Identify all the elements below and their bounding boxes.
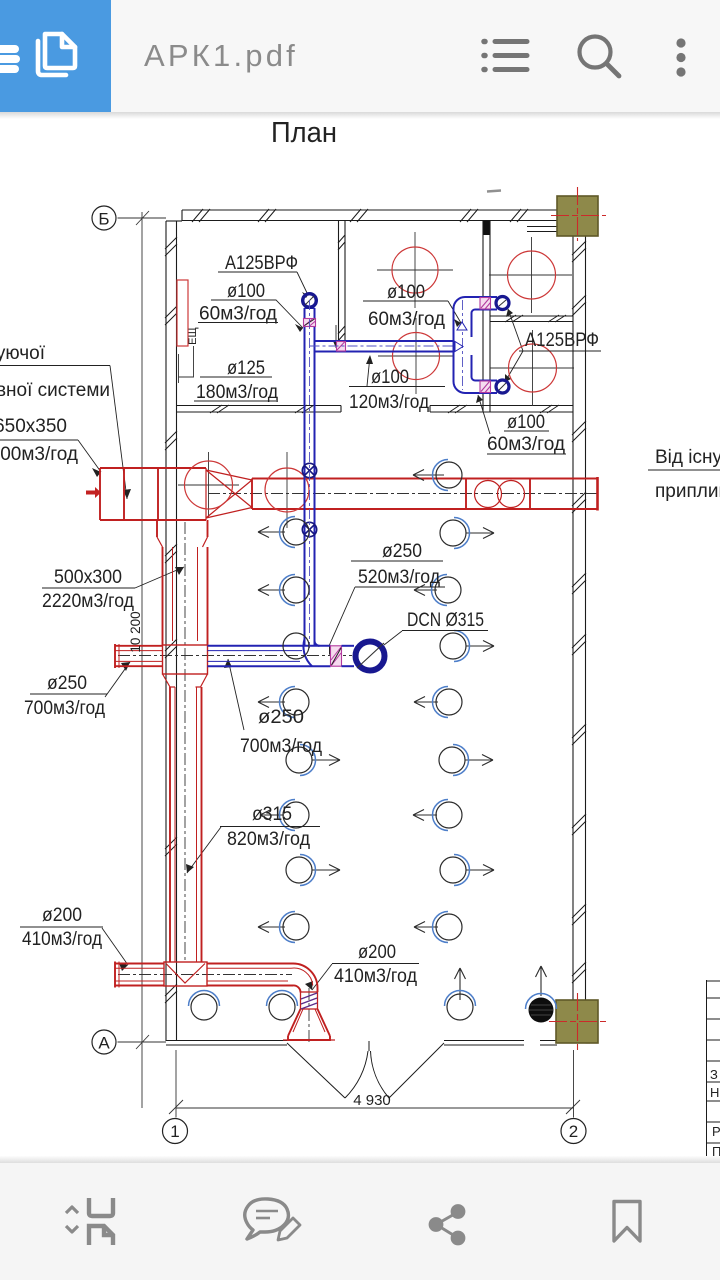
svg-text:ø100: ø100 bbox=[227, 281, 265, 302]
svg-text:ø250: ø250 bbox=[258, 707, 304, 728]
svg-text:А125ВРФ: А125ВРФ bbox=[525, 330, 599, 351]
svg-text:Р: Р bbox=[712, 1124, 720, 1139]
svg-text:410м3/год: 410м3/год bbox=[22, 929, 102, 950]
svg-text:820м3/год: 820м3/год bbox=[227, 829, 310, 850]
svg-text:650x350: 650x350 bbox=[0, 416, 67, 437]
svg-text:ø250: ø250 bbox=[382, 541, 422, 562]
svg-text:А125ВРФ: А125ВРФ bbox=[225, 253, 298, 274]
svg-text:900м3/год: 900м3/год bbox=[0, 444, 78, 465]
svg-text:120м3/год: 120м3/год bbox=[349, 392, 429, 413]
svg-text:ЕЩ: ЕЩ bbox=[187, 327, 199, 345]
svg-text:700м3/год: 700м3/год bbox=[240, 736, 322, 757]
svg-text:500x300: 500x300 bbox=[54, 567, 122, 588]
svg-text:припливної системи: припливної системи bbox=[0, 380, 110, 401]
svg-text:Б: Б bbox=[98, 210, 109, 229]
svg-text:4 930: 4 930 bbox=[353, 1092, 391, 1109]
svg-text:2: 2 bbox=[569, 1122, 578, 1141]
svg-text:700м3/год: 700м3/год bbox=[24, 698, 105, 719]
svg-text:2220м3/год: 2220м3/год bbox=[42, 591, 134, 612]
svg-text:60м3/год: 60м3/год bbox=[368, 309, 445, 330]
svg-text:520м3/год: 520м3/год bbox=[358, 567, 440, 588]
svg-text:180м3/год: 180м3/год bbox=[196, 382, 278, 403]
svg-text:А: А bbox=[98, 1034, 110, 1053]
svg-text:1: 1 bbox=[170, 1122, 179, 1141]
svg-text:ø100: ø100 bbox=[371, 367, 409, 388]
svg-text:ø125: ø125 bbox=[227, 358, 265, 379]
svg-text:ø200: ø200 bbox=[358, 942, 396, 963]
svg-text:ø100: ø100 bbox=[387, 282, 425, 303]
svg-text:ø200: ø200 bbox=[42, 905, 82, 926]
svg-text:План: План bbox=[271, 117, 337, 149]
svg-text:60м3/год: 60м3/год bbox=[199, 304, 277, 325]
svg-text:DCN Ø315: DCN Ø315 bbox=[407, 610, 484, 631]
svg-text:ø315: ø315 bbox=[252, 804, 292, 825]
svg-text:ø250: ø250 bbox=[47, 673, 87, 694]
svg-text:існуючої: існуючої bbox=[0, 343, 46, 364]
svg-text:припливні: припливні bbox=[655, 481, 720, 502]
svg-text:10 200: 10 200 bbox=[128, 611, 143, 652]
svg-text:Н: Н bbox=[710, 1085, 719, 1100]
svg-text:Від існуючи: Від існуючи bbox=[655, 447, 720, 468]
svg-text:60м3/год: 60м3/год bbox=[487, 434, 565, 455]
svg-text:ø100: ø100 bbox=[507, 412, 545, 433]
svg-text:410м3/год: 410м3/год bbox=[334, 966, 417, 987]
svg-text:З: З bbox=[710, 1067, 718, 1082]
